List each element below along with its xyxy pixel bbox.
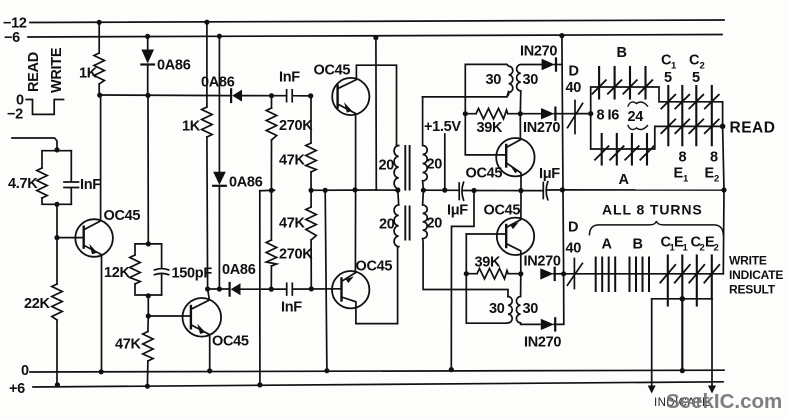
core winding C1 (write) [667,256,669,306]
svg-text:READ: READ [730,120,776,137]
svg-text:READ: READ [26,52,42,92]
core winding A1 [601,134,603,165]
resistor 1K (second) [206,22,209,289]
wire right indicate arrow [711,299,713,387]
wire 0A86-1 node down to 12K combo [147,96,149,244]
wire Q2 collector to diode [208,288,230,290]
node READ [720,124,726,130]
transistor Q3 OC45 [332,78,369,115]
Q1 emitter arrow [89,244,97,254]
svg-text:0: 0 [21,363,29,379]
core winding B3 [629,67,631,99]
wire A row [591,114,723,149]
wire 0 rail [30,370,724,372]
winding 30 left (lower pair) [506,297,512,324]
write tick B3 [642,258,644,292]
resistor 12K (parallel with 150pF) [135,244,162,295]
Q2 emitter arrow [197,324,205,334]
node Q2 collector junction [205,286,210,291]
svg-text:1: 1 [671,61,677,72]
node 1K bottom [97,93,102,98]
svg-text:IN270: IN270 [523,120,560,136]
svg-text:1: 1 [683,174,689,185]
write tick A4 [614,258,616,292]
node Q2 emitter on 0 rail [207,368,212,373]
node 270K no.1 top [269,93,274,98]
resistor 4.7K (parallel with InF cap) [42,150,71,238]
svg-text:E: E [674,166,684,182]
core winding B1 [598,67,600,99]
svg-text:IN270: IN270 [520,44,557,60]
Q3 emitter arrow [344,102,352,112]
diode IN270 no.4 [541,319,554,330]
svg-text:OC45: OC45 [314,63,351,79]
svg-text:IN270: IN270 [524,254,561,270]
svg-text:270K: 270K [279,118,313,134]
write tick A1 [595,258,597,292]
resistor 47K no.3 [146,316,149,386]
node E1 on 0 rail [680,368,685,373]
svg-text:RESULT: RESULT [729,283,776,297]
svg-text:1: 1 [683,243,689,254]
node Q1 emitter on 0 rail [99,369,104,374]
capacitor InF no.2 (Q4 base) [287,283,342,295]
svg-text:+1.5V: +1.5V [424,119,461,135]
svg-text:InF: InF [279,70,300,86]
wire bus T1 to cap [423,189,459,191]
svg-text:30: 30 [486,72,502,88]
core winding B2 [614,67,616,99]
transistor Q6 OC45 [497,218,534,255]
node WRITE wire junction [561,271,566,276]
node corner on +6 [257,382,262,387]
wire top net y=95.5 [100,94,231,97]
wire Q6 base feed [466,234,506,323]
diode 0A86 no.4 (horizontal, pointing left) [229,283,231,296]
node T1 right bottom [421,188,426,193]
node 47K mid junction [309,188,314,193]
winding 30 right (lower pair) [516,274,540,325]
wire -6 rail [28,35,722,38]
Q5 emitter arrow (outward) [511,166,519,173]
svg-text:8: 8 [679,150,687,166]
transformer T2 core [405,207,409,240]
svg-text:D: D [568,220,578,236]
node 39K-1 right [518,111,523,116]
wire corner to +6 rail [259,191,261,385]
resistor 39K no.2 (horizontal) [466,269,521,279]
wire bus to READ column [562,189,724,191]
node 39K-2 right [518,271,523,276]
transformer T1 left winding 20 [394,146,399,191]
node bus at READ column [721,187,726,192]
svg-text:OC45: OC45 [484,203,521,219]
wire Q3/Q4 shared vertical [354,190,356,273]
svg-text:39K: 39K [475,255,502,271]
svg-text:22K: 22K [24,296,51,312]
capacitor 150pF [155,244,169,295]
transistor Q2 OC45 [183,298,222,337]
node Q2 base tee [146,313,151,318]
svg-text:SeekIC.com: SeekIC.com [666,390,782,413]
svg-text:8: 8 [597,108,605,124]
core winding C2 (write) [696,256,698,306]
svg-text:2: 2 [714,174,719,185]
node 47K-3 on +6 [145,384,150,389]
wire WRITE row main [564,273,724,275]
svg-text:C: C [689,53,700,69]
svg-text:2: 2 [714,243,719,254]
svg-text:0A86: 0A86 [157,58,191,74]
wire -6 drop long vertical [562,36,564,274]
transformer T2 left winding 20 [394,190,399,247]
wire Q5 base feed [465,64,506,154]
svg-text:0A86: 0A86 [222,262,256,278]
svg-text:2: 2 [700,61,705,72]
winding 30 left (upper pair) [423,64,513,96]
node read splitter [588,111,593,116]
node 474 jog top [471,188,476,193]
node jog on 0 rail [449,367,454,372]
wire +1.5V lead [444,134,446,190]
svg-text:IμF: IμF [447,203,468,219]
svg-text:5: 5 [692,70,700,86]
wire B row [591,87,723,126]
svg-text:IμF: IμF [539,166,560,182]
svg-text:OC45: OC45 [356,259,393,275]
resistor 270K no.2 [270,190,272,289]
write tick A2 [601,258,603,292]
svg-text:24: 24 [628,109,644,125]
resistor 39K no.1 (horizontal) [465,109,520,119]
svg-text:40: 40 [566,80,582,96]
core column E2 (vertical) [711,86,713,145]
node -6 drop top [559,33,564,38]
core winding D/40 (read) [568,101,583,134]
winding 30 right (upper pair) [517,65,542,114]
node Q1 base [54,235,59,240]
transistor Q4 OC45 [332,271,369,308]
node input top [54,147,59,152]
svg-text:0A86: 0A86 [229,175,263,191]
transistor Q5 OC45 [496,138,534,176]
write tick B2 [635,258,637,292]
transformer T2 right winding 20 [423,190,508,296]
wire -6 feed to transformer junction [373,35,378,40]
brace above 24 [628,102,648,106]
svg-text:1K: 1K [79,66,98,82]
node 39K-2 left [464,271,469,276]
svg-text:OC45: OC45 [212,334,249,350]
transistor Q1 OC45 [75,219,113,257]
brace below 24 [628,126,648,130]
wire jog to 0 rail [451,191,474,370]
resistor 1K (first) [98,23,100,96]
svg-text:A: A [602,237,613,253]
diode IN270 no.3 [540,268,553,279]
svg-text:39K: 39K [477,120,504,136]
core winding A2 [616,134,618,165]
diode IN270 no.2 [520,113,541,115]
wire T1 right top to 30-1 left bottom [423,92,509,97]
node 1K top on -12 [97,20,102,25]
core winding A3 [631,134,633,165]
transformer T1 right winding 20 [423,97,428,190]
svg-text:47K: 47K [115,337,142,353]
svg-text:47K: 47K [279,153,306,169]
svg-text:20: 20 [379,217,395,233]
core column C2 (vertical) [695,86,697,145]
svg-text:1K: 1K [182,119,201,135]
svg-text:WRITE: WRITE [49,47,65,93]
wire ground line to 0 rail [325,190,327,370]
wire emitter bus left part [309,189,376,191]
svg-text:A: A [619,172,630,188]
node 47K no.2 bottom [309,286,314,291]
svg-text:IN270: IN270 [524,335,561,351]
capacitor IuF no.1 [459,182,521,200]
Q4 emitter arrow (upper lead, inward) [346,276,354,283]
wire +6 rail [33,382,723,387]
node T1 left bottom [395,188,400,193]
svg-text:B: B [633,237,643,253]
svg-text:5: 5 [664,70,672,86]
node 12K combo top [146,241,151,246]
wire input [12,138,57,150]
resistor 270K no.1 [270,96,272,191]
svg-text:−2: −2 [7,107,23,123]
svg-text:I6: I6 [608,108,620,124]
svg-text:4.7K: 4.7K [8,176,38,192]
node ground line on 0 rail [324,368,329,373]
node input bottom [54,202,59,207]
node 270K mid junction [269,188,274,193]
node Q5 emitter Q6 collector on bus [518,188,523,193]
node -6 drop on lower bus [560,187,565,192]
node 22K to +6 [55,382,60,387]
write tick A3 [608,258,610,292]
svg-text:8: 8 [710,150,718,166]
svg-text:270K: 270K [279,247,313,263]
core column C1 (vertical) [667,86,669,145]
svg-text:ALL 8 TURNS: ALL 8 TURNS [602,202,703,218]
svg-text:40: 40 [566,241,582,257]
svg-text:20: 20 [427,157,443,173]
wire 270K junction segment [260,189,275,191]
diode 0A86 no.1 [145,34,150,39]
node 39K-1 left [463,111,468,116]
svg-text:B: B [617,45,627,61]
Q6 collector arrow (upper lead, inward) [510,222,518,229]
capacitor InF (input) [64,151,79,205]
svg-text:+6: +6 [9,381,25,397]
svg-text:−6: −6 [4,30,20,46]
core winding E1 (write) [681,256,683,371]
svg-text:12K: 12K [104,265,131,281]
node Q3 emitter on bus [352,187,357,192]
core winding E2 (write) [711,256,713,299]
node 270K no.2 bottom [269,287,274,292]
waveform pulse symbol [26,100,63,115]
svg-text:InF: InF [281,300,302,316]
svg-text:InF: InF [80,177,101,193]
svg-text:30: 30 [489,301,505,317]
capacitor IuF no.2 [521,182,562,200]
write tick B1 [629,258,631,292]
diode 0A86 no.2 (horizontal, pointing left) [230,89,232,102]
wire left indicate arrow [651,299,653,387]
diode IN270 no.1 [542,59,555,70]
core winding A4 [646,134,648,165]
resistor 47K no.2 [310,190,312,289]
svg-text:OC45: OC45 [104,208,141,224]
svg-text:2: 2 [700,243,705,254]
svg-text:20: 20 [427,216,443,232]
node ground line top [323,188,328,193]
node +1.5V on bus [442,188,447,193]
brace ALL 8 TURNS [589,221,723,235]
wire indicate bar [652,298,712,300]
resistor 22K [56,238,58,385]
node E1 on indicate bar [680,296,686,302]
svg-text:30: 30 [523,301,539,317]
node 1K-2 top on -12 [204,20,209,25]
svg-text:D: D [569,64,579,80]
wire combo bottom to Q2 base node [147,296,149,316]
svg-text:INDICATE: INDICATE [729,268,783,282]
svg-text:E: E [705,166,715,182]
wire -12 rail [30,20,724,23]
capacitor InF no.1 (on top net) [272,90,311,102]
core winding B4 [644,67,646,99]
node 12K combo bottom [146,293,151,298]
transformer T1 core [405,146,409,190]
svg-text:WRITE: WRITE [729,254,767,268]
core column E1 (vertical) [681,86,683,145]
node 0A86-3 bottom junction [217,286,222,291]
node Q3 base wire [308,93,313,98]
node 0A86-1 bottom [145,93,150,98]
svg-text:47K: 47K [279,216,306,232]
resistor 47K no.1 [310,96,312,190]
wire READ column down [723,126,724,273]
svg-text:20: 20 [379,158,395,174]
svg-text:30: 30 [523,72,539,88]
diode 0A86 no.3 (vertical) [217,34,222,39]
svg-text:OC45: OC45 [466,166,503,182]
write tick B4 [648,258,650,292]
svg-text:150pF: 150pF [172,266,213,282]
core winding D/40 (write) [567,259,582,289]
